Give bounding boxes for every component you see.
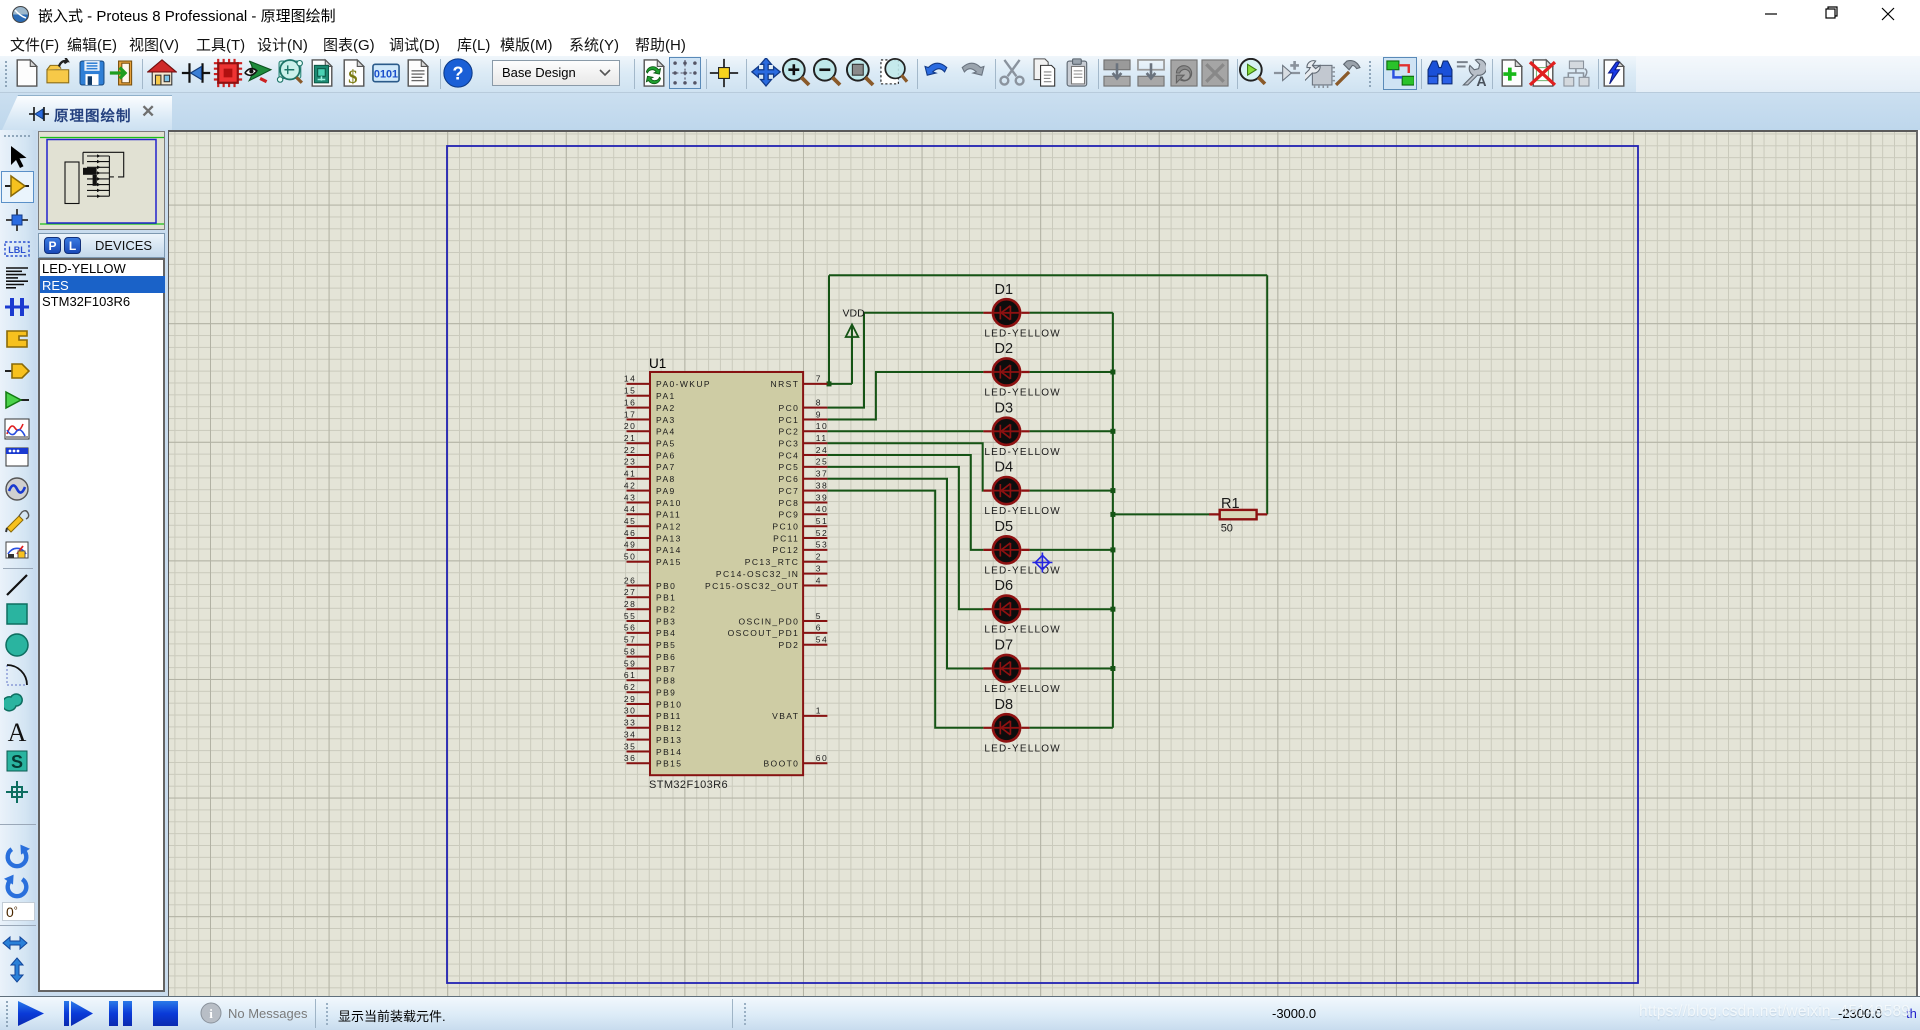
svg-text:59: 59 <box>624 658 637 668</box>
pin 40 (PC9) <box>779 504 829 520</box>
pin 26 (PB0) <box>624 575 676 591</box>
svg-text:PC14-OSC32_IN: PC14-OSC32_IN <box>716 569 799 579</box>
pin 52 (PC11) <box>773 528 828 544</box>
svg-text:30: 30 <box>624 706 637 716</box>
svg-text:NRST: NRST <box>771 379 800 389</box>
svg-text:PC7: PC7 <box>779 486 800 496</box>
svg-text:BOOT0: BOOT0 <box>763 759 799 769</box>
wire PC2 to D3 <box>827 430 983 432</box>
wire PC4 to D5 <box>827 455 983 550</box>
svg-text:PC11: PC11 <box>773 533 799 543</box>
svg-text:23: 23 <box>624 457 637 467</box>
wire D2 cathode to bus <box>1030 371 1113 373</box>
svg-text:PC8: PC8 <box>779 498 800 508</box>
pin 51 (PC10) <box>772 516 828 532</box>
svg-text:LBL: LBL <box>8 245 26 255</box>
pin 36 (PB15) <box>624 753 683 769</box>
pin 37 (PC6) <box>779 469 829 485</box>
svg-text:PB11: PB11 <box>656 711 682 721</box>
svg-text:58: 58 <box>624 646 637 656</box>
svg-text:PB14: PB14 <box>656 747 682 757</box>
svg-text:9: 9 <box>816 409 822 419</box>
wire D1 cathode to bus <box>1030 312 1113 314</box>
svg-text:OSCOUT_PD1: OSCOUT_PD1 <box>728 628 800 638</box>
pin 56 (PB4) <box>624 623 676 639</box>
pin 53 (PC12) <box>772 540 828 556</box>
svg-text:5: 5 <box>816 611 822 621</box>
svg-text:PA10: PA10 <box>656 498 682 508</box>
svg-text:24: 24 <box>816 445 829 455</box>
svg-text:22: 22 <box>624 445 637 455</box>
pin 30 (PB11) <box>624 706 682 722</box>
svg-text:PB12: PB12 <box>656 723 682 733</box>
svg-text:33: 33 <box>624 718 637 728</box>
svg-text:PC12: PC12 <box>772 545 799 555</box>
junction bus at D2 <box>1110 370 1115 375</box>
svg-text:43: 43 <box>624 492 637 502</box>
junction bus at D3 <box>1110 429 1115 434</box>
pin 1 (VBAT) <box>772 706 827 722</box>
svg-text:LED-YELLOW: LED-YELLOW <box>984 684 1060 695</box>
svg-text:PD2: PD2 <box>779 640 800 650</box>
svg-text:53: 53 <box>816 540 829 550</box>
LED D8 <box>983 697 1060 755</box>
wire PC7 to D8 <box>827 491 983 728</box>
pin 9 (PC1) <box>779 409 828 425</box>
svg-text:LED-YELLOW: LED-YELLOW <box>984 625 1060 636</box>
wire R1 to top rail riser <box>1266 275 1268 514</box>
pin 59 (PB7) <box>624 658 676 674</box>
svg-text:7: 7 <box>816 374 822 384</box>
svg-text:46: 46 <box>624 528 637 538</box>
svg-text:61: 61 <box>624 670 637 680</box>
svg-text:PB5: PB5 <box>656 640 676 650</box>
svg-text:PA7: PA7 <box>656 462 676 472</box>
svg-text:38: 38 <box>816 480 829 490</box>
svg-text:44: 44 <box>624 504 637 514</box>
junction NRST node <box>827 381 832 386</box>
power terminal VDD <box>843 308 866 384</box>
wire D3 cathode to bus <box>1030 430 1113 432</box>
pin 4 (PC15-OSC32_OUT) <box>705 575 827 591</box>
IC U1 STM32F103R6 <box>624 356 829 791</box>
svg-text:PB3: PB3 <box>656 616 676 626</box>
svg-text:6: 6 <box>816 623 822 633</box>
svg-text:11: 11 <box>816 433 828 443</box>
pin 5 (OSCIN_PD0) <box>739 611 828 627</box>
wire PC3 to D4 <box>827 443 983 490</box>
svg-text:D5: D5 <box>995 519 1014 535</box>
svg-text:36: 36 <box>624 753 637 763</box>
svg-text:PB4: PB4 <box>656 628 676 638</box>
pin 11 (PC3) <box>779 433 828 449</box>
svg-text:VDD: VDD <box>843 308 866 320</box>
pencil cursor <box>1032 553 1052 573</box>
svg-text:D6: D6 <box>995 578 1014 594</box>
svg-text:14: 14 <box>624 374 637 384</box>
svg-text:PC3: PC3 <box>779 439 800 449</box>
svg-text:PA4: PA4 <box>656 427 676 437</box>
wire PC5 to D6 <box>827 467 983 609</box>
pin 7 (NRST) <box>771 374 828 390</box>
svg-text:PA6: PA6 <box>656 450 676 460</box>
svg-text:D2: D2 <box>995 341 1014 357</box>
LED D6 <box>983 578 1060 636</box>
svg-text:i: i <box>209 1006 213 1021</box>
svg-text:37: 37 <box>816 469 829 479</box>
svg-text:55: 55 <box>624 611 637 621</box>
svg-text:3: 3 <box>816 563 822 573</box>
wire D8 cathode to bus <box>1030 727 1113 729</box>
svg-text:PA5: PA5 <box>656 439 676 449</box>
svg-text:PB9: PB9 <box>656 688 676 698</box>
svg-text:PB15: PB15 <box>656 759 682 769</box>
pin 21 (PA5) <box>624 433 676 449</box>
svg-text:PA13: PA13 <box>656 533 682 543</box>
wire D5 cathode to bus <box>1030 549 1113 551</box>
svg-text:54: 54 <box>816 635 829 645</box>
svg-text:34: 34 <box>624 729 637 739</box>
junction bus at D4 <box>1110 488 1115 493</box>
svg-text:42: 42 <box>624 480 637 490</box>
svg-text:PB10: PB10 <box>656 699 682 709</box>
svg-text:D7: D7 <box>995 638 1014 654</box>
pin 45 (PA12) <box>624 516 682 532</box>
junction bus at D6 <box>1110 607 1115 612</box>
svg-text:PB2: PB2 <box>656 605 676 615</box>
svg-text:50: 50 <box>1221 523 1233 535</box>
svg-text:D3: D3 <box>995 400 1014 416</box>
junction bus at D5 <box>1110 547 1115 552</box>
svg-text:1: 1 <box>816 706 822 716</box>
svg-text:39: 39 <box>816 492 829 502</box>
pin 22 (PA6) <box>624 445 676 461</box>
svg-text:PA14: PA14 <box>656 545 682 555</box>
svg-text:D1: D1 <box>995 282 1014 298</box>
LED D1 <box>983 282 1060 340</box>
svg-text:49: 49 <box>624 540 637 550</box>
svg-text:PB7: PB7 <box>656 664 676 674</box>
svg-text:PB13: PB13 <box>656 735 682 745</box>
pin 25 (PC5) <box>779 457 829 473</box>
pin 29 (PB10) <box>624 694 683 710</box>
svg-text:2: 2 <box>816 552 822 562</box>
svg-text:20: 20 <box>624 421 637 431</box>
pin 3 (PC14-OSC32_IN) <box>716 563 828 579</box>
svg-text:PB1: PB1 <box>656 593 676 603</box>
LED D4 <box>983 460 1060 517</box>
pin 60 (BOOT0) <box>763 753 828 769</box>
wire D4 cathode to bus <box>1030 490 1113 492</box>
svg-text:35: 35 <box>624 741 637 751</box>
svg-text:57: 57 <box>624 635 637 645</box>
pin 61 (PB8) <box>624 670 676 686</box>
wire NRST to VDD <box>827 383 852 385</box>
svg-text:D4: D4 <box>995 460 1014 476</box>
svg-text:LED-YELLOW: LED-YELLOW <box>984 506 1060 517</box>
svg-text:50: 50 <box>624 552 637 562</box>
svg-text:PC9: PC9 <box>779 510 800 520</box>
svg-text:PC13_RTC: PC13_RTC <box>745 557 800 567</box>
svg-text:?: ? <box>452 63 463 84</box>
pin 2 (PC13_RTC) <box>745 552 828 568</box>
svg-text:LED-YELLOW: LED-YELLOW <box>984 565 1060 576</box>
svg-text:PC1: PC1 <box>779 415 800 425</box>
pin 16 (PA2) <box>624 397 676 413</box>
svg-text:PA15: PA15 <box>656 557 682 567</box>
pin 62 (PB9) <box>624 682 676 698</box>
pin 58 (PB6) <box>624 646 676 662</box>
svg-text:10: 10 <box>816 421 829 431</box>
pin 24 (PC4) <box>779 445 829 461</box>
svg-text:PC2: PC2 <box>779 427 800 437</box>
pin 28 (PB2) <box>624 599 676 615</box>
svg-text:0101: 0101 <box>374 68 398 80</box>
svg-text:45: 45 <box>624 516 637 526</box>
svg-text:17: 17 <box>624 409 637 419</box>
svg-text:A: A <box>1476 73 1486 88</box>
svg-text:PA9: PA9 <box>656 486 676 496</box>
svg-text:PC15-OSC32_OUT: PC15-OSC32_OUT <box>705 581 799 591</box>
svg-text:PB6: PB6 <box>656 652 676 662</box>
svg-text:$: $ <box>348 67 357 87</box>
pin 20 (PA4) <box>624 421 676 437</box>
pin 6 (OSCOUT_PD1) <box>728 623 828 639</box>
svg-text:LED-YELLOW: LED-YELLOW <box>984 447 1060 458</box>
pin 23 (PA7) <box>624 457 676 473</box>
svg-text:4: 4 <box>816 575 822 585</box>
svg-text:PA11: PA11 <box>656 510 681 520</box>
LED D7 <box>983 638 1060 696</box>
pin 34 (PB13) <box>624 729 683 745</box>
svg-text:PC0: PC0 <box>779 403 800 413</box>
LED D2 <box>983 341 1060 399</box>
resistor R1 <box>1209 496 1267 535</box>
wire PC0 to D1 <box>827 313 983 408</box>
svg-text:15: 15 <box>624 386 637 396</box>
svg-text:PA12: PA12 <box>656 522 682 532</box>
pin 35 (PB14) <box>624 741 683 757</box>
pin 50 (PA15) <box>624 552 682 568</box>
pin 49 (PA14) <box>624 540 682 556</box>
svg-text:51: 51 <box>816 516 829 526</box>
pin 46 (PA13) <box>624 528 682 544</box>
pin 33 (PB12) <box>624 718 683 734</box>
svg-text:PB0: PB0 <box>656 581 676 591</box>
pin 15 (PA1) <box>624 386 676 402</box>
svg-text:PA0-WKUP: PA0-WKUP <box>656 379 711 389</box>
svg-text:25: 25 <box>816 457 829 467</box>
svg-text:PA2: PA2 <box>656 403 676 413</box>
LED D3 <box>983 400 1060 458</box>
wire PC1 to D2 <box>827 372 983 420</box>
svg-text:26: 26 <box>624 575 637 585</box>
wire PC6 to D7 <box>827 479 983 669</box>
svg-text:16: 16 <box>624 397 637 407</box>
svg-text:52: 52 <box>816 528 829 538</box>
svg-text:41: 41 <box>624 469 637 479</box>
sheet border <box>447 146 1638 983</box>
pin 39 (PC8) <box>779 492 829 508</box>
pin 38 (PC7) <box>779 480 829 496</box>
junction bus at D7 <box>1110 666 1115 671</box>
pin 10 (PC2) <box>779 421 829 437</box>
svg-text:LED-YELLOW: LED-YELLOW <box>984 388 1060 399</box>
svg-text:PC10: PC10 <box>772 522 799 532</box>
svg-text:A: A <box>8 719 27 745</box>
pin 43 (PA10) <box>624 492 682 508</box>
wire bus to R1 <box>1113 513 1209 515</box>
wire cathode bus vertical <box>1112 313 1114 728</box>
pin 44 (PA11) <box>624 504 681 520</box>
svg-text:PC4: PC4 <box>779 450 800 460</box>
svg-text:40: 40 <box>816 504 829 514</box>
pin 42 (PA9) <box>624 480 676 496</box>
pin 41 (PA8) <box>624 469 676 485</box>
junction bus at R1 <box>1110 512 1115 517</box>
svg-text:8: 8 <box>816 397 822 407</box>
svg-text:27: 27 <box>624 587 637 597</box>
svg-text:LED-YELLOW: LED-YELLOW <box>984 743 1060 754</box>
svg-text:PC6: PC6 <box>779 474 800 484</box>
svg-text:PB8: PB8 <box>656 676 676 686</box>
svg-text:PA3: PA3 <box>656 415 676 425</box>
pin 54 (PD2) <box>779 635 829 651</box>
pin 14 (PA0-WKUP) <box>624 374 711 390</box>
svg-text:VBAT: VBAT <box>772 711 799 721</box>
pin 55 (PB3) <box>624 611 676 627</box>
svg-text:62: 62 <box>624 682 637 692</box>
svg-text:PA8: PA8 <box>656 474 676 484</box>
svg-text:R1: R1 <box>1221 496 1240 512</box>
svg-text:28: 28 <box>624 599 637 609</box>
pin 27 (PB1) <box>624 587 676 603</box>
svg-text:U1: U1 <box>649 356 666 371</box>
svg-text:29: 29 <box>624 694 637 704</box>
svg-text:S: S <box>11 752 23 772</box>
svg-text:PA1: PA1 <box>656 391 676 401</box>
pin 8 (PC0) <box>779 397 828 413</box>
svg-text:21: 21 <box>624 433 637 443</box>
svg-text:STM32F103R6: STM32F103R6 <box>649 779 728 791</box>
svg-text:OSCIN_PD0: OSCIN_PD0 <box>739 616 800 626</box>
LED D5 <box>983 519 1060 577</box>
svg-text:LED-YELLOW: LED-YELLOW <box>984 328 1060 339</box>
svg-text:PC5: PC5 <box>779 462 800 472</box>
wire NRST to rail riser <box>828 275 830 384</box>
svg-text:60: 60 <box>816 753 829 763</box>
wire D6 cathode to bus <box>1030 608 1113 610</box>
pin 57 (PB5) <box>624 635 676 651</box>
wire VDD top rail <box>829 274 1267 276</box>
svg-text:56: 56 <box>624 623 637 633</box>
svg-text:D8: D8 <box>995 697 1014 713</box>
pin 17 (PA3) <box>624 409 676 425</box>
wire D7 cathode to bus <box>1030 668 1113 670</box>
